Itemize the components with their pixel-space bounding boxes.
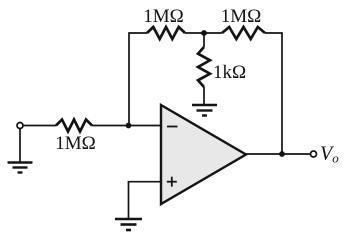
node B junction dot (inverting input node): [126, 123, 132, 129]
svg-text:1MΩ: 1MΩ: [143, 6, 184, 27]
resistor R4 1MΩ (input): [56, 120, 92, 132]
resistor R1 1MΩ (feedback left): [147, 27, 185, 39]
svg-text:1MΩ: 1MΩ: [55, 133, 96, 154]
node C junction dot (output node): [279, 151, 285, 157]
wire: top feedback left segment with left corner down to inverting node: [129, 33, 147, 126]
output terminal (open circle): [311, 151, 317, 157]
wire: between R1 and node A: [185, 32, 222, 34]
wire: op-amp output to output terminal: [246, 153, 311, 155]
wire: node A down to R3: [203, 35, 205, 47]
wire: non-inverting input to ground: [129, 182, 162, 219]
svg-text:1kΩ: 1kΩ: [213, 62, 246, 83]
node A junction dot: [201, 30, 207, 36]
minus sign (inverting input): [167, 126, 178, 128]
wire: input terminal to R4: [23, 125, 56, 127]
op-amp U1: [161, 105, 246, 204]
plus sign (non-inverting input): [167, 181, 177, 183]
resistor R2 1MΩ (feedback right): [222, 27, 265, 39]
ground (input terminal): [8, 163, 33, 173]
wire: R4 to inverting input of op-amp: [92, 125, 161, 127]
resistor R3 1kΩ (shunt to ground): [198, 47, 210, 87]
input terminal (open circle): [17, 123, 23, 129]
svg-text:1MΩ: 1MΩ: [221, 6, 262, 27]
wire: input terminal down to ground: [19, 129, 21, 163]
wire: R3 to ground: [203, 87, 205, 105]
ground (non-inverting input): [115, 219, 142, 230]
ground (below R3): [192, 105, 217, 116]
wire: R2 to right corner down to output node: [265, 33, 282, 154]
